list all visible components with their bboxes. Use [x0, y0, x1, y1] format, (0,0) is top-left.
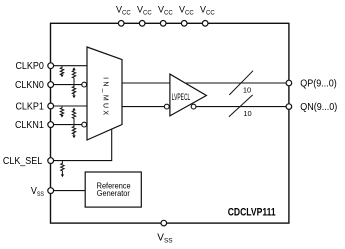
- svg-text:CLKN0: CLKN0: [15, 79, 44, 91]
- wire CLKP0 to mux: [54, 65, 87, 67]
- pin Vcc 5: [200, 5, 215, 27]
- ground pin Vss bottom: [157, 220, 173, 244]
- svg-text:LVPECL: LVPECL: [172, 92, 191, 103]
- input pin CLK_SEL: [3, 156, 54, 168]
- svg-text:Generator: Generator: [97, 189, 131, 198]
- inverting bubble CLKN0 at mux: [82, 82, 87, 87]
- inverting bubble CLKN1 at mux: [82, 122, 87, 127]
- bias resistor R4 on CLKP1: [60, 106, 63, 115]
- svg-text:VCC: VCC: [137, 5, 152, 17]
- pulldown resistor R7 on CLK_SEL: [61, 161, 64, 175]
- svg-text:10: 10: [243, 109, 251, 118]
- svg-text:CLKP0: CLKP0: [15, 61, 43, 73]
- svg-text:CDCLVP111: CDCLVP111: [228, 207, 276, 219]
- bus slash QN: [229, 95, 253, 117]
- pin Vcc 4: [179, 5, 194, 27]
- svg-text:VCC: VCC: [158, 5, 173, 17]
- svg-text:QN(9...0): QN(9...0): [300, 102, 337, 114]
- inverting input bubble at buffer: [164, 104, 169, 109]
- IC boundary CDCLVP111: [51, 23, 289, 223]
- wire CLK_SEL to mux select: [54, 129, 112, 161]
- wire mux output P to buffer: [122, 82, 170, 84]
- svg-text:VSS: VSS: [157, 233, 173, 245]
- input pin CLKP0: [15, 61, 53, 73]
- wire CLKN1 to mux bubble: [54, 124, 82, 126]
- svg-text:QP(9...0): QP(9...0): [300, 78, 336, 90]
- svg-text:IN_MUX: IN_MUX: [102, 77, 109, 117]
- ground pin Vss left: [31, 185, 54, 198]
- bias resistor R6 on CLKN1: [72, 125, 75, 136]
- bias resistor R3 on CLKN0: [72, 85, 75, 96]
- output pin QP(9...0): [286, 78, 337, 90]
- svg-text:10: 10: [243, 85, 251, 94]
- output pin QN(9...0): [286, 102, 337, 114]
- pin Vcc 3: [158, 5, 173, 27]
- input pin CLKN1: [15, 119, 54, 131]
- svg-text:CLKP1: CLKP1: [15, 101, 43, 113]
- reference generator U3: [85, 172, 141, 207]
- wire Vss to reference generator: [54, 190, 86, 192]
- bias resistor R5 between CLKP1 and CLKN1: [72, 110, 75, 124]
- svg-text:VCC: VCC: [200, 5, 215, 17]
- pin Vcc 2: [137, 5, 152, 27]
- bias resistor R2 between CLKP0 and CLKN0: [72, 70, 75, 85]
- wire QP bus: [186, 82, 286, 84]
- wire CLKN0 to mux bubble: [54, 84, 82, 86]
- inverting output bubble of buffer: [191, 104, 196, 109]
- svg-text:CLK_SEL: CLK_SEL: [3, 156, 43, 168]
- input pin CLKN0: [15, 79, 54, 91]
- wire QN bus: [196, 106, 286, 108]
- svg-text:VCC: VCC: [116, 5, 131, 17]
- wire mux output N to buffer bubble: [122, 106, 164, 108]
- bus slash QP: [229, 71, 253, 95]
- pin Vcc 1: [116, 5, 131, 27]
- svg-text:VSS: VSS: [31, 185, 44, 198]
- wire CLKP1 to mux: [54, 105, 87, 107]
- svg-text:CLKN1: CLKN1: [15, 119, 44, 131]
- buffer U2 LVPECL: [170, 74, 207, 116]
- input pin CLKP1: [15, 101, 53, 113]
- svg-text:VCC: VCC: [179, 5, 194, 17]
- mux U1 IN_MUX: [87, 47, 122, 140]
- bias resistor R1 on CLKP0: [60, 66, 63, 75]
